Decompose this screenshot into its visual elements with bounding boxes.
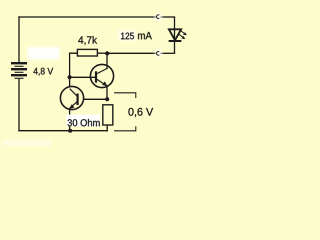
node A dot (Q1 base / Q2 collector / R1): [68, 75, 72, 79]
wire Q1 emitter down to junction: [106, 86, 108, 99]
value label 4,7k: [78, 36, 97, 45]
transistor Q1: [90, 64, 113, 87]
wire R1 left stub down to node A: [70, 53, 78, 77]
white smear bottom left: [2, 140, 52, 146]
white label patch near battery: [28, 47, 60, 60]
node dot ground rail / Q2 emitter: [68, 129, 72, 133]
white patch behind 125: [118, 30, 136, 41]
wire mid rail connector to collector node: [107, 52, 155, 54]
wire top right to LED branch: [161, 16, 175, 18]
voltage label 0,6 V: [128, 108, 153, 117]
resistor R2 (30 Ohm, vertical): [103, 105, 113, 125]
wire LED bottom to connector: [161, 52, 175, 54]
wire R2 bottom stub: [106, 125, 108, 131]
wire left rail upper: [18, 17, 20, 62]
wire node A to Q1 base: [70, 76, 96, 78]
wire top rail: [19, 16, 155, 18]
wire Q1 collector: [106, 53, 108, 68]
connector top (plug symbol): [154, 13, 162, 21]
node dot collector rail: [105, 51, 109, 55]
transistor Q2: [60, 86, 83, 109]
LED light arrow 2: [179, 34, 184, 37]
value label 30 Ohm: [68, 119, 100, 126]
measurement bracket bottom: [114, 126, 136, 131]
battery B1 4,8V pack: [11, 63, 27, 78]
wire R1 right stub: [97, 52, 107, 54]
LED light arrow 1: [180, 31, 185, 34]
current label 125: [121, 33, 134, 40]
connector bottom (plug symbol): [154, 49, 162, 57]
current unit label mA: [138, 32, 152, 39]
wire bottom rail: [19, 130, 107, 132]
resistor R1: [77, 49, 97, 56]
measurement bracket top: [114, 93, 136, 98]
battery value label 4,8 V: [33, 68, 53, 76]
wire Q2 emitter down to ground rail: [69, 109, 71, 131]
node dot Q1 emitter / Q2 base / R2: [105, 97, 109, 101]
wire node A to Q2 collector: [69, 77, 71, 86]
white label patch 30 Ohm: [66, 115, 100, 127]
wire Q2 base: [85, 98, 108, 100]
LED D1: [169, 17, 187, 53]
wire left rail lower: [18, 80, 20, 131]
